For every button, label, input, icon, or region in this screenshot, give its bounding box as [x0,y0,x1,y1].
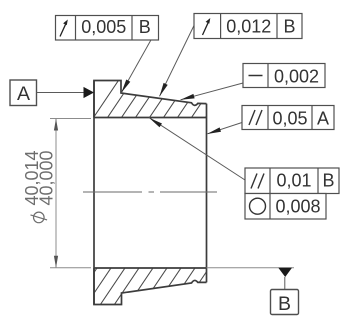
svg-text:A: A [17,83,30,105]
svg-text:0,012: 0,012 [226,17,271,37]
svg-text:B: B [322,171,334,191]
svg-text:A: A [317,108,329,128]
svg-text:40,000: 40,000 [36,150,56,205]
svg-text:B: B [278,293,291,315]
svg-text:0,008: 0,008 [275,197,320,217]
svg-text:0,005: 0,005 [81,17,126,37]
svg-text:0,01: 0,01 [276,171,311,191]
svg-text:0,002: 0,002 [274,66,319,86]
svg-text:B: B [283,17,295,37]
svg-text:0,05: 0,05 [272,108,307,128]
svg-text:B: B [139,17,151,37]
